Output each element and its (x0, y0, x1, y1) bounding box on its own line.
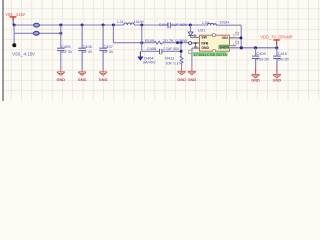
ground symbol under C405 (57, 70, 65, 76)
svg-text:LT1611CS5 SOT5: LT1611CS5 SOT5 (194, 53, 227, 57)
SHDN overline (219, 44, 229, 46)
inductor L31 coil (124, 23, 135, 25)
wire below C407 (102, 51, 104, 70)
node dot x181 C408 row (180, 50, 183, 53)
ground symbol under C409 (252, 69, 260, 78)
wire R411 to ground (181, 63, 183, 66)
VIN pin stub (230, 37, 241, 39)
pin circle bottom (213, 50, 216, 53)
node dot wireA x103.1 (102, 24, 105, 27)
wire below C410 (276, 59, 278, 72)
node dot wireA x141.8 (140, 24, 143, 27)
riser to C410 (276, 48, 278, 56)
svg-text:GND: GND (99, 77, 108, 82)
ground symbol under R411 (178, 66, 186, 75)
node dot wireA x60.8 (59, 24, 62, 27)
svg-text:SHDN: SHDN (219, 46, 229, 50)
pin cross marker (NFB) (194, 42, 198, 46)
node dot wireB x60.8 (59, 32, 62, 35)
part number green highlight (193, 52, 228, 56)
svg-text:VSS_-4.15V: VSS_-4.15V (12, 51, 35, 57)
inductor L34 coil (208, 23, 217, 25)
svg-text:R109: R109 (145, 38, 154, 43)
NFB row wire left of R109 (113, 42, 154, 44)
wire below C409 (255, 59, 257, 72)
wire bus A after C404 (171, 24, 208, 26)
svg-text:1UF 50V: 1UF 50V (171, 22, 188, 27)
pin circle top (212, 34, 215, 37)
svg-text:GND: GND (57, 77, 66, 82)
node dot NFB x177.5 (176, 41, 179, 44)
svg-text:4.7UF 50V: 4.7UF 50V (256, 57, 270, 61)
svg-text:L31: L31 (117, 19, 124, 24)
wire bus A after L31 (134, 24, 167, 26)
wire stem to bus A (12, 20, 14, 25)
C408 row wire (142, 50, 159, 52)
diode D404 vertical wire from bus A (190, 25, 192, 32)
sheet border (2, 0, 4, 101)
node dot rail x276.8 (275, 46, 278, 49)
capacitor C408 plates (160, 49, 162, 54)
ellipse symbol on bus A (34, 23, 40, 27)
svg-text:C405: C405 (61, 44, 70, 49)
riser to C406 (81, 25, 83, 48)
svg-text:10UH: 10UH (219, 19, 229, 24)
gray square marker SHDN (236, 41, 239, 44)
svg-text:C409: C409 (256, 51, 265, 56)
svg-text:GND: GND (273, 77, 282, 82)
riser to C407 (102, 25, 104, 48)
riser to C405 (60, 25, 62, 48)
op-amp U31 body (200, 35, 230, 51)
resistor R411 zigzag (vertical) (180, 56, 183, 63)
capacitor C409 (252, 51, 270, 61)
wire bus A after L34 (216, 24, 241, 26)
riser x141.8 from bus A to C408 row (141, 25, 143, 51)
svg-text:C408: C408 (147, 46, 156, 51)
ground symbol under C406 (78, 70, 86, 76)
power port VSS_-4.15V stem (12, 17, 14, 20)
wire below C406 (81, 51, 83, 70)
capacitor C404 plates (168, 23, 170, 29)
capacitor C405 (57, 44, 73, 54)
pin SHDN green highlight (218, 45, 230, 49)
svg-text:VIN: VIN (222, 36, 228, 40)
GND pin wire from IC (192, 47, 200, 49)
node dot VIN x241 (240, 36, 243, 39)
svg-text:4: 4 (233, 43, 235, 47)
svg-text:1UF 16V: 1UF 16V (82, 50, 92, 54)
svg-text:2.2UF 50V: 2.2UF 50V (163, 46, 179, 51)
diode D404 symbol (outline, pointing down) (188, 32, 193, 36)
svg-text:10K 0.1%: 10K 0.1% (165, 60, 182, 65)
diode D404 stem (dark) (139, 51, 141, 56)
node dot rail x241.3 (240, 46, 243, 49)
riser bus A to NFB row (112, 25, 114, 43)
black terminal dot (12, 43, 16, 47)
ground symbol under GND pin (188, 66, 196, 75)
svg-text:GND: GND (201, 46, 209, 50)
diode D404 solid triangle (137, 57, 143, 61)
capacitor C406 (78, 44, 92, 54)
svg-text:U31: U31 (198, 27, 206, 32)
ground symbol under C410 (273, 69, 281, 78)
wire bus A (14, 24, 124, 26)
node dot wireA x190.3 (189, 24, 192, 27)
capacitor C410 (273, 51, 289, 61)
svg-text:VDD_7V_OPAMP: VDD_7V_OPAMP (260, 34, 292, 39)
wire diode to SW pin (190, 36, 192, 38)
pin cross marker (SW) (193, 34, 196, 37)
riser x181 NFB row down to C408 row (180, 43, 182, 56)
svg-text:L34: L34 (202, 20, 209, 25)
ellipse symbol on NFB row (189, 42, 192, 45)
svg-text:GND: GND (251, 77, 260, 82)
node dot wireA x113.4 (112, 24, 115, 27)
svg-text:C407: C407 (104, 44, 113, 49)
svg-text:NFB: NFB (201, 41, 209, 45)
pin cross marker (GND) (194, 45, 197, 48)
power port VSS_-4.15V bar symbol (10, 16, 17, 18)
svg-text:10UF 25V: 10UF 25V (278, 57, 290, 61)
wire bus B (14, 32, 61, 34)
riser to C409 (255, 48, 257, 56)
power port VDD stem (276, 41, 278, 45)
svg-text:GND: GND (78, 77, 87, 82)
ground symbol under C407 (99, 70, 107, 76)
svg-text:C406: C406 (83, 44, 92, 49)
node dot NFB x181 (180, 41, 183, 44)
node dot wireA x82.1 (81, 24, 84, 27)
svg-text:GND: GND (177, 77, 186, 82)
ellipse symbol on bus B (33, 31, 39, 35)
sheet margin (0, 0, 2, 101)
node dot wireA x14 (13, 24, 16, 27)
gray square marker VIN (236, 32, 239, 35)
svg-text:C404: C404 (159, 22, 169, 27)
SHDN rail (230, 47, 277, 49)
svg-text:10UH: 10UH (134, 19, 144, 24)
node dot NFB x141.8 (140, 41, 143, 44)
power port VDD bar (273, 39, 279, 41)
NFB row wire right of R109 (162, 42, 191, 44)
svg-text:1UF 16V: 1UF 16V (103, 50, 113, 54)
wire below C405 (60, 51, 62, 70)
SHDN pin stub (gray) (230, 45, 237, 47)
svg-text:3A/40V: 3A/40V (143, 59, 156, 64)
gray square marker near GND pin (189, 50, 192, 53)
resistor R109 zigzag (154, 41, 162, 44)
svg-text:GND: GND (188, 77, 197, 82)
wire L34 corner down to VIN (240, 25, 242, 48)
svg-text:5: 5 (233, 33, 235, 37)
node dot rail x255.5 (254, 46, 257, 49)
capacitor C407 (99, 44, 113, 54)
wire riser x14 down (13, 25, 15, 44)
svg-text:C410: C410 (278, 51, 288, 56)
svg-text:10UF 25V: 10UF 25V (61, 50, 73, 54)
svg-text:20.7K 0.06W: 20.7K 0.06W (163, 38, 188, 43)
svg-text:SW: SW (201, 36, 207, 40)
